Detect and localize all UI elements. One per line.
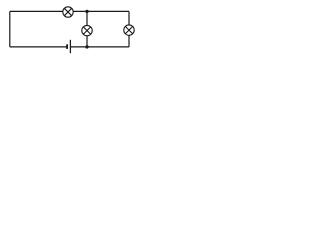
wire bottom left segment (to battery) <box>10 46 67 48</box>
lamp L3 (right branch) <box>124 25 134 35</box>
battery cell positive plate (long thin) <box>69 40 71 53</box>
junction dot top node <box>85 10 88 13</box>
wire top (left corner to right corner) <box>10 10 129 12</box>
battery cell negative plate (short thick) <box>66 44 68 49</box>
wire left side <box>9 11 11 47</box>
wire middle branch <box>86 11 88 47</box>
wire bottom right segment (battery to right corner) <box>70 46 129 48</box>
lamp L2 (middle branch) <box>82 25 92 35</box>
junction dot bottom node <box>85 45 88 48</box>
wire right side <box>128 11 130 47</box>
lamp L1 (top) <box>63 7 73 17</box>
